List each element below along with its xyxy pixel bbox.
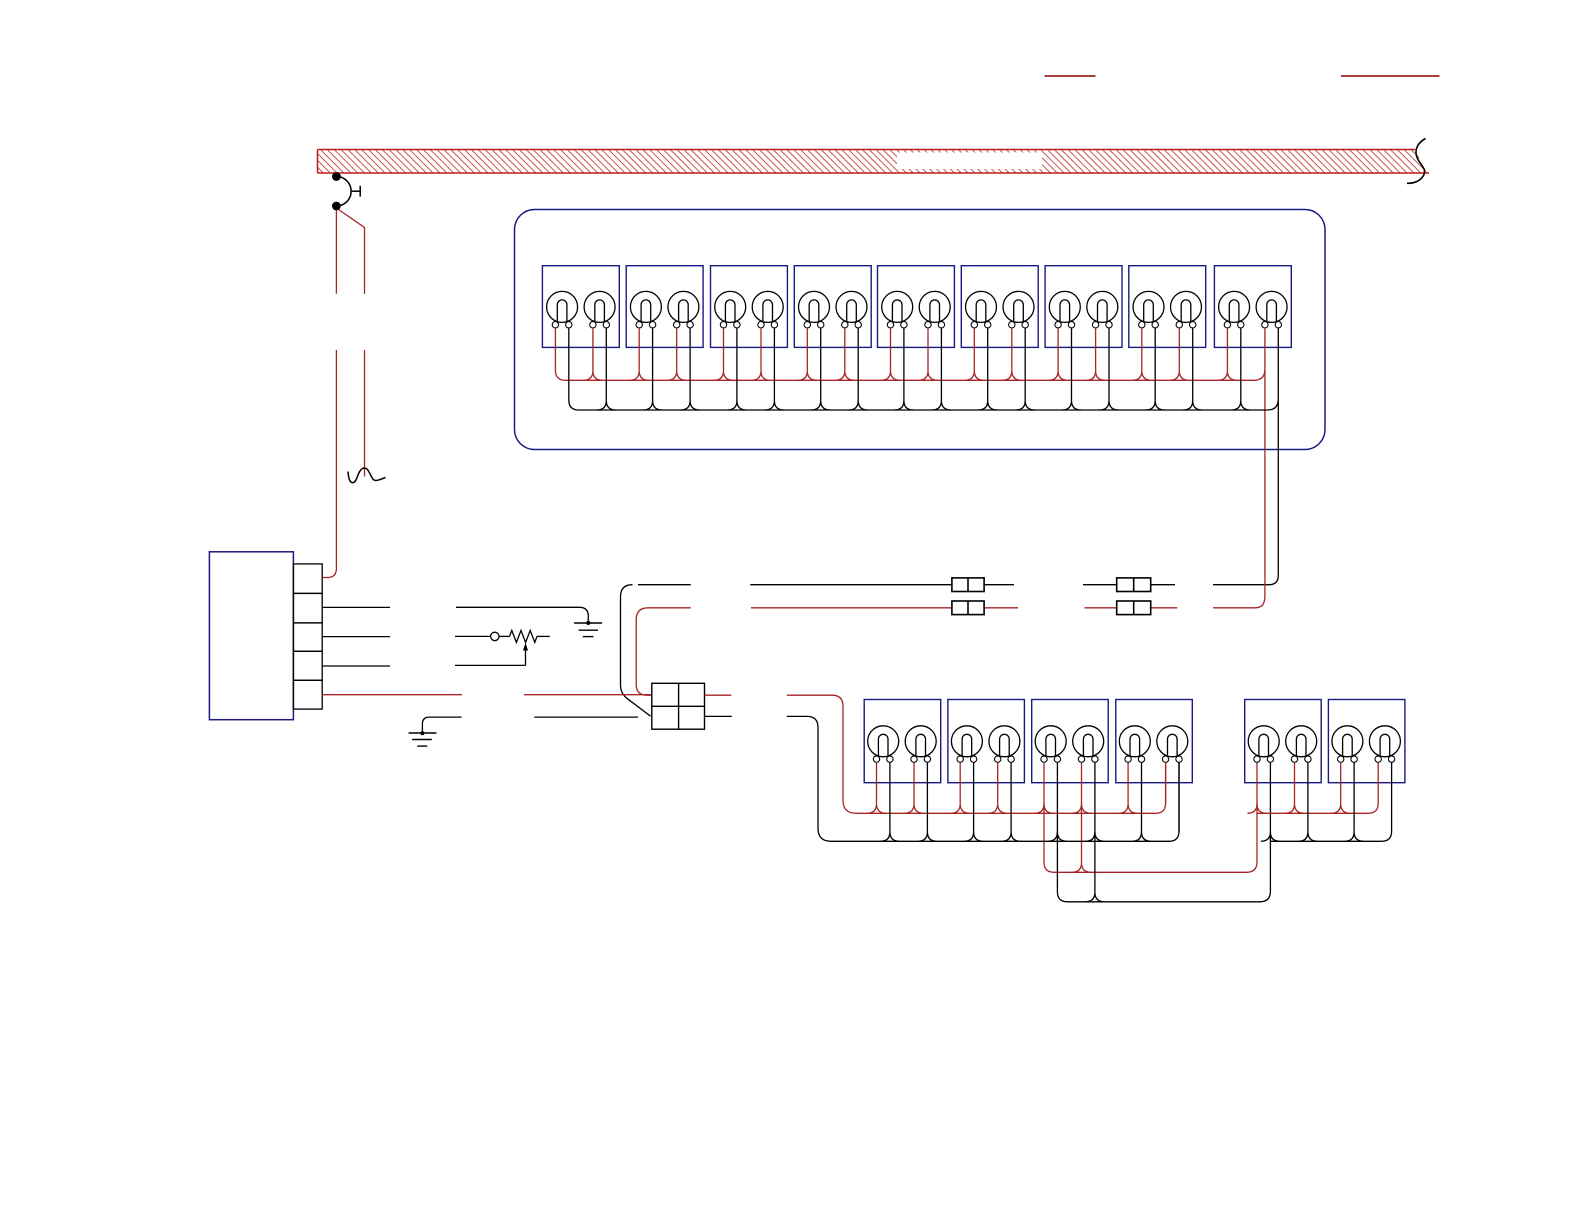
lamp BL8 <box>1157 726 1188 763</box>
wire black J2 right stub <box>705 715 732 717</box>
lamp box BB1 <box>864 700 941 783</box>
bottom group1 red lamp wires <box>877 762 1166 804</box>
lamp TL10 <box>919 291 950 328</box>
wire red branch upper segment B <box>339 210 365 294</box>
lamp box BB2 <box>948 700 1025 783</box>
lamp TL15 <box>1133 291 1164 328</box>
lamp box BB3 <box>1032 700 1109 783</box>
lamp TL13 <box>1049 291 1080 328</box>
lamp BL9 <box>1248 726 1279 763</box>
lamp TL17 <box>1219 291 1250 328</box>
lamp BL11 <box>1332 726 1363 763</box>
wire black into J2 lower-left <box>534 585 650 717</box>
wire pin3 black <box>322 636 390 638</box>
wire black fuse line segments <box>750 584 1269 586</box>
wire black fuse-line left segment <box>638 584 691 586</box>
bottom group1 red bus junctions <box>867 804 1138 814</box>
top lamp panel enclosure <box>515 210 1326 450</box>
lamp box TB6 <box>961 266 1038 348</box>
wire red fuse line segments <box>751 607 1256 609</box>
lamp TL11 <box>966 291 997 328</box>
lamp box BB6 <box>1328 700 1405 783</box>
lamp BL3 <box>951 726 982 763</box>
wire black feed to lower lamps <box>787 716 831 841</box>
lamp TL9 <box>882 291 913 328</box>
red underline right <box>1341 75 1440 77</box>
top panel black bus <box>579 399 1279 410</box>
lamp TL18 <box>1256 291 1287 328</box>
wire red J2 right stub <box>705 694 732 696</box>
lamp BL10 <box>1286 726 1317 763</box>
lamp TL14 <box>1087 291 1118 328</box>
lamp box TB9 <box>1214 266 1291 348</box>
lamp TL3 <box>630 291 661 328</box>
potentiometer R1 <box>455 630 550 642</box>
circuit breaker CB1 <box>332 172 360 210</box>
fuse F1 (black line) <box>952 578 984 592</box>
fuse F3 (black line) <box>1117 578 1151 592</box>
wire red feed lower segment A <box>322 350 336 578</box>
lamp BL5 <box>1035 726 1066 763</box>
lamp TL4 <box>668 291 699 328</box>
wire black long feed to group2 <box>1057 762 1270 902</box>
lamp TL1 <box>547 291 578 328</box>
lamp box BB5 <box>1245 700 1322 783</box>
wire pin4 black <box>322 665 390 667</box>
wire red branch lower segment B <box>364 350 366 477</box>
connector J1 body <box>209 552 293 720</box>
connector J1 pins 1-5 <box>293 564 322 709</box>
fuse F4 (red line) <box>1117 601 1151 615</box>
lamp TL2 <box>584 291 615 328</box>
bottom group2 red bus <box>1248 762 1379 813</box>
top black bus junctions <box>597 401 1251 411</box>
connector J2 4-way <box>652 683 705 729</box>
wire red feed to lower lamps <box>787 695 856 813</box>
ground G1 <box>456 607 602 636</box>
wire pin2 black <box>322 606 390 608</box>
bottom group2 black bus junctions <box>1298 832 1363 842</box>
red underline left <box>1045 75 1096 77</box>
lamp TL6 <box>752 291 783 328</box>
lamp box TB3 <box>711 266 788 348</box>
bottom group2 red bus junctions <box>1285 804 1350 814</box>
lamp box TB7 <box>1045 266 1122 348</box>
lamp box BB4 <box>1116 700 1193 783</box>
bottom group2 black lamp wires <box>1308 762 1354 832</box>
lamp BL12 <box>1369 726 1400 763</box>
lamp TL8 <box>836 291 867 328</box>
pot wiper arrow <box>455 643 528 666</box>
lamp TL5 <box>715 291 746 328</box>
bottom group2 black bus <box>1261 762 1392 841</box>
lamp TL12 <box>1003 291 1034 328</box>
lamp BL2 <box>905 726 936 763</box>
top panel red bus <box>565 369 1265 380</box>
bottom group2 red lamp wires <box>1295 762 1341 804</box>
top panel black lamp wires <box>569 328 1279 585</box>
lamp TL7 <box>799 291 830 328</box>
lamp BL6 <box>1073 726 1104 763</box>
lamp BL4 <box>989 726 1020 763</box>
wire red down into J2 upper-left <box>636 608 691 695</box>
lamp box TB8 <box>1129 266 1206 348</box>
bottom group1 black bus junctions <box>880 832 1151 842</box>
lamp box TB2 <box>626 266 703 348</box>
bottom group1 black bus <box>831 762 1179 841</box>
wire red pin5 resume to J2 <box>524 694 652 696</box>
bottom group1 black lamp wires <box>890 762 1179 832</box>
bus bar break squiggle <box>1407 139 1426 184</box>
lamp BL7 <box>1119 726 1150 763</box>
lamp box TB1 <box>542 266 619 348</box>
top panel red lamp wires <box>555 328 1265 608</box>
wire pin5 red <box>322 694 462 696</box>
lamp box TB5 <box>878 266 955 348</box>
wire break squiggle on branch B <box>348 468 386 483</box>
hatched 12V power bus bar <box>318 150 1430 174</box>
ground G2 <box>409 717 462 746</box>
wire red long feed to group2 <box>1044 762 1257 872</box>
bottom group1 red bus <box>856 762 1166 813</box>
lamp BL1 <box>868 726 899 763</box>
lamp box TB4 <box>794 266 871 348</box>
top red bus junctions <box>583 371 1237 381</box>
wire red feed upper segment A <box>335 210 337 294</box>
fuse F2 (red line) <box>952 601 984 615</box>
lamp TL16 <box>1171 291 1202 328</box>
